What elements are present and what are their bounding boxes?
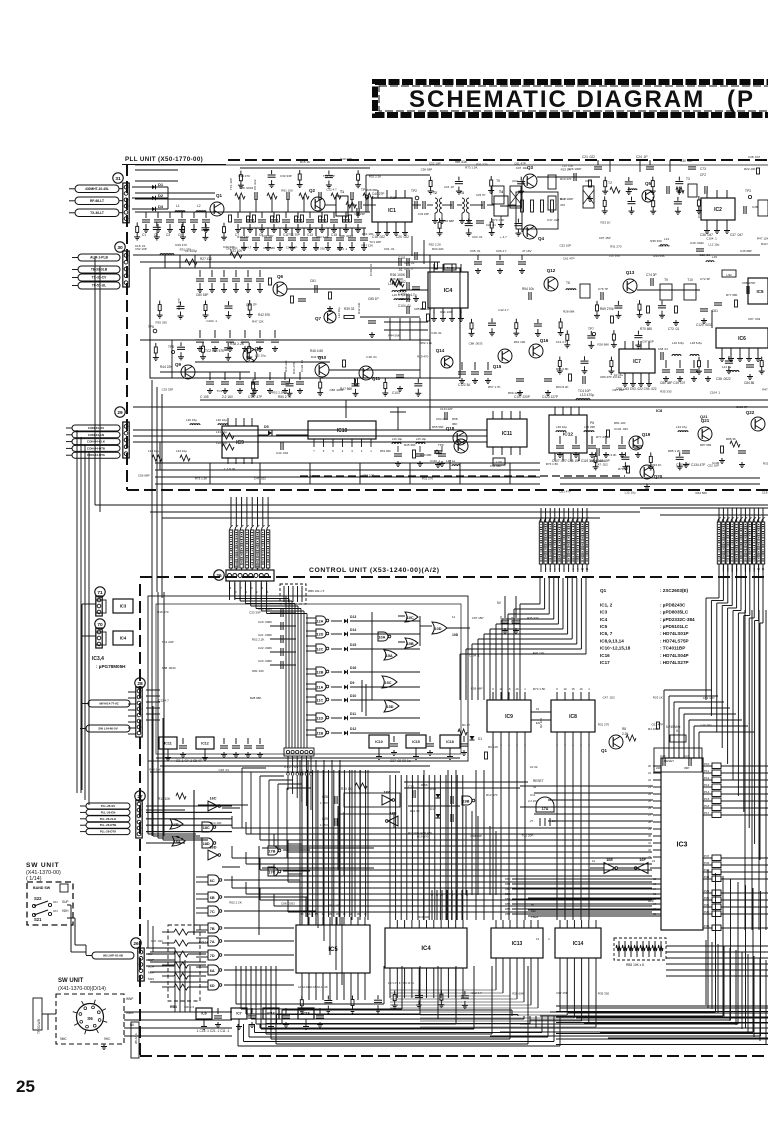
svg-text:Q8: Q8: [255, 346, 262, 351]
svg-text:Q1: Q1: [601, 748, 608, 753]
svg-text:10: 10: [563, 687, 567, 691]
svg-text:R44 56K: R44 56K: [388, 333, 400, 337]
svg-text:C80 38P C19 107: C80 38P C19 107: [660, 381, 686, 385]
svg-text:2.2K: 2.2K: [622, 732, 629, 736]
svg-text:C33 33P: C33 33P: [262, 234, 274, 238]
svg-text:L34 10µ: L34 10µ: [176, 449, 187, 453]
svg-text:R39 33: R39 33: [344, 307, 355, 311]
svg-text:L12 10µ: L12 10µ: [625, 491, 636, 495]
svg-text:R47 12K: R47 12K: [757, 237, 768, 241]
svg-text:L30 15µ: L30 15µ: [186, 418, 197, 422]
svg-text:R42 57K: R42 57K: [258, 313, 271, 317]
svg-text:L15: L15: [712, 255, 717, 259]
svg-text:L37 1a: L37 1a: [446, 459, 456, 463]
svg-text:C3: C3: [166, 233, 170, 237]
svg-text:R85 1.2K: R85 1.2K: [668, 449, 681, 453]
svg-text:DB1: DB1: [505, 882, 511, 886]
svg-text:R28 68K: R28 68K: [512, 992, 524, 996]
svg-text:C56 68P: C56 68P: [421, 168, 433, 172]
svg-text:T5: T5: [496, 179, 500, 183]
svg-text:Q9: Q9: [175, 362, 182, 367]
svg-text:TC1 20P: TC1 20P: [288, 233, 300, 237]
svg-text:TX-33-CV: TX-33-CV: [92, 276, 107, 280]
svg-text:C52 10P: C52 10P: [707, 464, 719, 468]
svg-text:T2: T2: [433, 191, 437, 195]
svg-text:mm 53a: mm 53a: [455, 160, 467, 164]
svg-text:IC10~12,15,18: IC10~12,15,18: [600, 646, 631, 651]
svg-text:IC4: IC4: [444, 288, 454, 294]
svg-text:P22: P22: [704, 896, 710, 900]
svg-text:L12 10µ: L12 10µ: [609, 254, 620, 258]
svg-text:R46 4.6K: R46 4.6K: [310, 349, 324, 353]
svg-text:C104 .01: C104 .01: [398, 304, 411, 308]
svg-text:R44 56K: R44 56K: [149, 767, 161, 771]
svg-text:CF2: CF2: [700, 173, 706, 177]
svg-text:R19 470: R19 470: [417, 354, 429, 358]
svg-text:WNP: WNP: [126, 997, 133, 1001]
svg-text:T3: T3: [686, 177, 690, 181]
svg-text:R42 230: R42 230: [357, 302, 361, 314]
svg-text:26: 26: [133, 941, 139, 947]
svg-text:TX-36-LT: TX-36-LT: [90, 211, 104, 215]
svg-text:P21: P21: [704, 903, 710, 907]
svg-text:R1 47: R1 47: [462, 723, 470, 727]
svg-text:C3 .1 C4 .1 C5 47: C3 .1 C4 .1 C5 47: [176, 759, 202, 763]
svg-text:TC2 R40 57K: TC2 R40 57K: [205, 349, 225, 353]
svg-text:C97 15P: C97 15P: [612, 388, 624, 392]
svg-text:R22 100: R22 100: [744, 167, 756, 171]
svg-text:C37 .047: C37 .047: [730, 233, 743, 237]
svg-text:TC1 20P: TC1 20P: [369, 240, 381, 244]
svg-text:PLL-26-SV: PLL-26-SV: [101, 804, 116, 808]
svg-text:TC1 30P: TC1 30P: [229, 178, 233, 190]
svg-text:: HD74LS01P: : HD74LS01P: [660, 631, 689, 636]
svg-text:M2S: M2S: [148, 977, 154, 981]
svg-text:15A: 15A: [386, 654, 393, 658]
svg-text:C91 .01: C91 .01: [384, 247, 395, 251]
svg-text:P17: P17: [704, 811, 710, 815]
svg-text:R44 27K: R44 27K: [292, 362, 296, 374]
svg-text:R73 1.5K: R73 1.5K: [465, 166, 478, 170]
svg-text:IC10: IC10: [337, 428, 348, 434]
svg-text:C12 4.7: C12 4.7: [556, 340, 567, 344]
svg-text:T1: T1: [340, 190, 344, 194]
svg-text:Q4: Q4: [538, 236, 545, 241]
svg-text:IC14: IC14: [573, 941, 584, 947]
svg-text:C18 .01: C18 .01: [219, 768, 230, 772]
svg-text:C107 220P: C107 220P: [514, 395, 530, 399]
svg-text:C24 .1P: C24 .1P: [444, 185, 454, 189]
svg-text:R35 330: R35 330: [598, 992, 610, 996]
svg-text:P34: P34: [704, 875, 710, 879]
svg-text:C104 .01: C104 .01: [369, 263, 373, 276]
svg-text:R28 68K: R28 68K: [250, 696, 262, 700]
svg-text:C129 .01: C129 .01: [300, 359, 304, 372]
svg-text:C88 470P: C88 470P: [742, 281, 755, 285]
svg-text:C52 10P: C52 10P: [703, 696, 715, 700]
svg-text:L12 10µ: L12 10µ: [701, 723, 712, 727]
svg-text:R47 12K: R47 12K: [533, 651, 545, 655]
svg-text:DB7: DB7: [505, 912, 511, 916]
svg-text:16E: 16E: [606, 858, 613, 862]
svg-text:R44 56K: R44 56K: [696, 491, 708, 495]
svg-text:6D: 6D: [210, 984, 215, 988]
svg-text:C88 .0033: C88 .0033: [281, 901, 295, 905]
svg-text:L10 4.7µ: L10 4.7µ: [392, 293, 404, 297]
svg-text:C8 .022: C8 .022: [253, 179, 257, 190]
svg-text:S21: S21: [34, 917, 42, 922]
svg-text:R34 22K: R34 22K: [432, 247, 444, 251]
svg-text:TC1 20P: TC1 20P: [217, 389, 229, 393]
svg-text:R19 470: R19 470: [157, 610, 169, 614]
svg-text:C96 4.7: C96 4.7: [496, 249, 507, 253]
svg-text:IC10: IC10: [375, 740, 383, 744]
svg-text:R46 680: R46 680: [420, 453, 432, 457]
svg-text:10C: 10C: [407, 616, 414, 620]
svg-text:9HC: 9HC: [104, 1037, 111, 1041]
svg-text:ON: ON: [53, 900, 58, 904]
svg-text:R51 480: R51 480: [380, 449, 391, 453]
svg-text:R44 22K: R44 22K: [160, 365, 173, 369]
svg-text:DB5: DB5: [505, 902, 511, 906]
svg-text:R61 100: R61 100: [252, 669, 264, 673]
svg-text:C104 .1: C104 .1: [337, 247, 348, 251]
svg-text:IC6: IC6: [738, 336, 746, 342]
svg-text:L12 10µ: L12 10µ: [337, 307, 341, 318]
svg-text:Q3: Q3: [527, 165, 534, 170]
svg-text:13: 13: [536, 937, 540, 941]
svg-text:D10: D10: [350, 694, 356, 698]
svg-text:11B: 11B: [317, 732, 324, 736]
svg-text:C56 68P: C56 68P: [490, 464, 502, 468]
svg-text:15C: 15C: [385, 681, 392, 685]
svg-text:6B: 6B: [210, 896, 215, 900]
svg-text:10B: 10B: [407, 642, 414, 646]
svg-text:R50 2.7K: R50 2.7K: [278, 395, 292, 399]
svg-text:C80 18P: C80 18P: [196, 293, 208, 297]
svg-text:R78 3.3K: R78 3.3K: [604, 453, 617, 457]
svg-text:T4: T4: [499, 190, 503, 194]
svg-text:P16: P16: [704, 804, 710, 808]
svg-text:17A: 17A: [542, 807, 549, 811]
svg-text:10K x 6: 10K x 6: [184, 1005, 195, 1009]
svg-text:C18 .01: C18 .01: [366, 355, 377, 359]
svg-text:C87 .043: C87 .043: [748, 317, 761, 321]
svg-text:D14: D14: [350, 628, 356, 632]
svg-text:L13: L13: [664, 237, 669, 241]
svg-text:C88 .0033: C88 .0033: [469, 341, 483, 345]
svg-text:D1: D1: [478, 737, 482, 741]
svg-text:: HD74LS04P: : HD74LS04P: [660, 653, 689, 658]
svg-text:P37: P37: [704, 854, 710, 858]
svg-text:R64 8.2K: R64 8.2K: [556, 385, 569, 389]
svg-text:10D: 10D: [435, 627, 442, 631]
svg-text:C21 .022: C21 .022: [582, 155, 595, 159]
svg-text:IC5: IC5: [756, 289, 764, 294]
svg-text:Q21: Q21: [701, 418, 710, 423]
svg-text:C56 68P: C56 68P: [471, 687, 483, 691]
svg-text:R86 36: R86 36: [726, 437, 736, 441]
svg-text:IC8: IC8: [656, 408, 663, 413]
svg-text:C12 4.7: C12 4.7: [498, 308, 509, 312]
svg-text:Q19: Q19: [642, 432, 651, 437]
svg-text:R73 1.5K: R73 1.5K: [492, 218, 505, 222]
svg-text:C12 4.7: C12 4.7: [326, 187, 337, 191]
svg-text:L36 10µ: L36 10µ: [556, 425, 567, 429]
svg-text:D16: D16: [350, 666, 356, 670]
svg-text:430MHT-10-45L: 430MHT-10-45L: [85, 187, 109, 191]
svg-text:R61 100: R61 100: [362, 232, 374, 236]
svg-text:T10: T10: [687, 278, 693, 282]
svg-text:C13: C13: [307, 233, 313, 237]
svg-text:12C: 12C: [316, 648, 323, 652]
svg-text:C5: C5: [178, 233, 182, 237]
svg-text:C61 47P: C61 47P: [658, 244, 670, 248]
svg-text:R44 56K: R44 56K: [761, 242, 768, 246]
svg-text:R77 27K: R77 27K: [596, 435, 608, 439]
svg-text:IC8,9,13,14: IC8,9,13,14: [600, 638, 624, 643]
svg-text:R47 12K: R47 12K: [362, 244, 374, 248]
svg-text:Q7: Q7: [315, 316, 322, 321]
svg-text:R31 270: R31 270: [610, 245, 622, 249]
svg-text:IC5: IC5: [600, 624, 608, 629]
svg-text:D15: D15: [350, 643, 356, 647]
svg-text:R31 270: R31 270: [476, 162, 488, 166]
svg-text:C33 33P: C33 33P: [249, 611, 261, 615]
svg-text:C107 47P: C107 47P: [248, 395, 262, 399]
svg-text:IC12: IC12: [201, 741, 209, 745]
svg-text:R52 1.2k: R52 1.2k: [420, 341, 433, 345]
svg-text:15: 15: [571, 687, 575, 691]
svg-text:SW UNIT: SW UNIT: [58, 978, 84, 984]
svg-text:C38 .0022: C38 .0022: [716, 377, 731, 381]
svg-text:R35 330: R35 330: [660, 390, 672, 394]
svg-text:Q22: Q22: [746, 410, 755, 415]
svg-text:TP9: TP9: [438, 443, 444, 447]
svg-text:C104 .1: C104 .1: [710, 391, 721, 395]
svg-text:P6: P6: [590, 421, 594, 425]
svg-text:C61 47P: C61 47P: [651, 722, 663, 726]
svg-text:IC17: IC17: [600, 660, 610, 665]
svg-text:IC4: IC4: [600, 617, 608, 622]
svg-text:R81 12K: R81 12K: [614, 421, 626, 425]
svg-text:IC11: IC11: [502, 431, 513, 437]
svg-text:C84 86: C84 86: [744, 381, 755, 385]
svg-text:R14 10K: R14 10K: [210, 821, 222, 825]
svg-text:IC2: IC2: [714, 207, 722, 213]
svg-text:TC1 20P: TC1 20P: [162, 640, 174, 644]
svg-text:R28 68K: R28 68K: [264, 246, 276, 250]
svg-text:R73 1.5K: R73 1.5K: [546, 462, 559, 466]
svg-text:Q1: Q1: [216, 193, 223, 198]
svg-text:10D: 10D: [452, 633, 459, 637]
svg-text:T9: T9: [664, 278, 668, 282]
svg-text:R35 330: R35 330: [314, 246, 326, 250]
svg-text:29: 29: [117, 410, 123, 416]
svg-text:L12 10µ: L12 10µ: [255, 354, 266, 358]
svg-text:9B L/HP-61-9B: 9B L/HP-61-9B: [103, 954, 123, 958]
svg-text:C12 4.7: C12 4.7: [471, 991, 482, 995]
svg-text:11: 11: [452, 615, 455, 619]
svg-text:17B: 17B: [268, 850, 275, 854]
svg-text:R61 100: R61 100: [329, 903, 341, 907]
svg-text:R44 56K: R44 56K: [653, 254, 665, 258]
svg-text:C123 127P: C123 127P: [542, 395, 558, 399]
svg-text:18C: 18C: [203, 826, 210, 830]
svg-text:P35: P35: [704, 868, 710, 872]
svg-text:R44 56K: R44 56K: [311, 355, 323, 359]
svg-text:7D: 7D: [210, 954, 215, 958]
svg-text:R23 1K: R23 1K: [601, 221, 611, 225]
svg-text:R28 68K: R28 68K: [563, 310, 575, 314]
svg-text:C56 68P: C56 68P: [138, 474, 150, 478]
svg-text:C11: C11: [530, 793, 536, 797]
svg-text:C72 3P: C72 3P: [700, 277, 710, 281]
svg-text:L/92: L/92: [726, 273, 732, 277]
svg-text:7B: 7B: [210, 927, 215, 931]
svg-text:MUP: MUP: [148, 971, 155, 975]
svg-text:(P: (P: [727, 86, 755, 113]
svg-text:IC7: IC7: [236, 1012, 241, 1016]
svg-text:C88 .0033: C88 .0033: [339, 234, 353, 238]
svg-text:C38: C38: [752, 205, 758, 209]
svg-text:12: 12: [592, 859, 596, 863]
svg-text:R47 12K: R47 12K: [762, 387, 768, 391]
svg-text:C56 68P: C56 68P: [443, 219, 455, 223]
svg-text:R28 68K: R28 68K: [366, 188, 378, 192]
svg-text:C54 22P: C54 22P: [436, 417, 448, 421]
svg-text:C85 .01: C85 .01: [404, 261, 415, 265]
svg-text:12D: 12D: [316, 633, 323, 637]
svg-text:C18 .01: C18 .01: [699, 253, 710, 257]
svg-text:S6: S6: [87, 1016, 93, 1021]
svg-text:P14: P14: [704, 790, 710, 794]
svg-text:R77 680: R77 680: [726, 293, 738, 297]
svg-text:11D: 11D: [317, 717, 324, 721]
svg-text:R13 47K: R13 47K: [486, 793, 498, 797]
svg-text:PLL-26-CLK: PLL-26-CLK: [100, 817, 117, 821]
svg-text:R10: R10: [560, 197, 566, 201]
svg-text:C47 .022: C47 .022: [596, 463, 609, 467]
svg-text:RESET: RESET: [533, 779, 544, 783]
svg-text:IC8: IC8: [569, 714, 577, 720]
svg-text:R61 100: R61 100: [281, 189, 293, 193]
svg-text:T2: T2: [608, 181, 612, 185]
svg-text:10 32: 10 32: [530, 765, 538, 769]
svg-text:9DH: 9DH: [62, 909, 69, 913]
svg-text:C33 33P: C33 33P: [162, 388, 174, 392]
svg-text:D9: D9: [350, 681, 354, 685]
svg-text:R45 39K: R45 39K: [404, 443, 416, 447]
svg-text:R19 470: R19 470: [238, 174, 250, 178]
svg-text:R23 1K: R23 1K: [561, 168, 571, 172]
svg-text:IC6, 7: IC6, 7: [600, 631, 613, 636]
svg-text:C33 33P: C33 33P: [280, 174, 292, 178]
svg-text:19B: 19B: [462, 800, 469, 804]
svg-text:TP3: TP3: [745, 189, 751, 193]
svg-text:TF-51-UL: TF-51-UL: [92, 284, 106, 288]
svg-text:Q16: Q16: [540, 338, 549, 343]
svg-text:IC13: IC13: [512, 941, 523, 947]
svg-text:1 2 3 4 5 6 7 8 9 10 11: 1 2 3 4 5 6 7 8 9 10 11: [388, 981, 414, 985]
svg-text:TE-33-3LB: TE-33-3LB: [91, 268, 108, 272]
svg-text:R66 6.8K: R66 6.8K: [556, 367, 569, 371]
svg-text:C30 .047: C30 .047: [680, 159, 693, 163]
svg-text:C132 .033: C132 .033: [614, 427, 628, 431]
svg-text:CON-34-RX: CON-34-RX: [88, 426, 104, 430]
svg-text:C47 .022: C47 .022: [254, 476, 267, 480]
svg-text:15D: 15D: [387, 705, 394, 709]
svg-text:11A: 11A: [317, 686, 324, 690]
svg-text:C94 .01: C94 .01: [472, 235, 483, 239]
svg-text:6C: 6C: [210, 879, 215, 883]
svg-text:C38 .047: C38 .047: [748, 155, 761, 159]
svg-text:C95 .01: C95 .01: [470, 249, 481, 253]
svg-text:R23 1K: R23 1K: [310, 474, 320, 478]
svg-text:A1 A2 A3 A4 A5 A6 A7 A8: A1 A2 A3 A4 A5 A6 A7 A8: [298, 985, 328, 989]
svg-text:L16 6.8µ: L16 6.8µ: [672, 341, 684, 345]
svg-text:R31 270: R31 270: [180, 248, 192, 252]
svg-text:CON-34-DTA: CON-34-DTA: [87, 453, 106, 457]
svg-text:.1 C18 .1 C21 .1 C: .1 C18 .1 C21 .1 C11 .1: [196, 1029, 229, 1033]
svg-text:C33 33P: C33 33P: [223, 245, 235, 249]
svg-text:P30: P30: [704, 924, 710, 928]
svg-text:RB5 10K x 8: RB5 10K x 8: [626, 963, 644, 967]
svg-text:C 105: C 105: [200, 395, 209, 399]
svg-text:AUR-1-PLB: AUR-1-PLB: [90, 256, 108, 260]
svg-text:R55 56K: R55 56K: [432, 425, 444, 429]
svg-text:C85 1P: C85 1P: [414, 307, 424, 311]
svg-text:L26 10µ: L26 10µ: [392, 437, 403, 441]
svg-text:15: 15: [536, 707, 540, 711]
svg-text:IC3: IC3: [600, 610, 608, 615]
svg-text:BAND SW: BAND SW: [33, 886, 51, 890]
svg-text:C116 .1: C116 .1: [430, 459, 441, 463]
svg-text:R23 1K: R23 1K: [653, 696, 663, 700]
svg-text:R36 100K: R36 100K: [390, 277, 403, 281]
svg-text:IC3: IC3: [677, 842, 688, 849]
svg-text:CON-34-CLK: CON-34-CLK: [87, 440, 106, 444]
svg-text:T8: T8: [566, 281, 570, 285]
svg-text:C104 .1: C104 .1: [206, 319, 217, 323]
svg-text:D5: D5: [264, 425, 269, 429]
svg-text:IC3: IC3: [120, 604, 127, 609]
svg-text:C97 15P: C97 15P: [599, 236, 611, 240]
svg-text:TF-50-WB: TF-50-WB: [37, 1019, 41, 1034]
svg-text:R58: R58: [452, 417, 458, 421]
svg-text:R61 100: R61 100: [440, 310, 452, 314]
svg-text:R87 684: R87 684: [700, 443, 712, 447]
svg-text:R61 100: R61 100: [514, 340, 526, 344]
svg-text:2.2 16V: 2.2 16V: [222, 395, 234, 399]
svg-text:CON-34-EN: CON-34-EN: [88, 433, 104, 437]
svg-text:L13 470µ: L13 470µ: [580, 393, 594, 397]
svg-text:R52 2.2K: R52 2.2K: [252, 637, 265, 641]
svg-text:16: 16: [515, 687, 519, 691]
svg-text:(X41-1370-00)(D/14): (X41-1370-00)(D/14): [58, 986, 106, 992]
svg-text:IC3,4: IC3,4: [92, 656, 104, 662]
svg-text:C97 15P: C97 15P: [286, 245, 298, 249]
svg-text:C6 10: C6 10: [499, 616, 503, 624]
svg-text:Q2: Q2: [309, 188, 316, 193]
svg-text:11C: 11C: [317, 699, 324, 703]
svg-text:C104 .1: C104 .1: [469, 654, 480, 658]
svg-text:D1: D1: [158, 182, 164, 187]
svg-text:TP2: TP2: [411, 189, 417, 193]
svg-text:R52 2.2K: R52 2.2K: [316, 235, 329, 239]
svg-text:R38 2.2K: R38 2.2K: [230, 342, 245, 346]
svg-text:R10 1K: R10 1K: [341, 787, 353, 791]
